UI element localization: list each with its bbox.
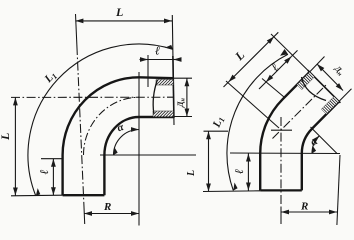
svg-text:ℓ: ℓ — [155, 44, 160, 58]
dimension L (vertical left) — [208, 131, 210, 191]
arrow L1 right bottom end — [233, 183, 237, 191]
l top extension — [41, 158, 63, 160]
bottom extension line — [11, 194, 63, 197]
centerline arc of bend (dash-dot) — [84, 97, 140, 155]
arrow L1 arc bottom end — [36, 188, 41, 196]
radius line from O2 to incline tangent — [311, 127, 338, 154]
top extension of L (axis intersection level) — [204, 130, 229, 132]
l extension (tangent line of top pipe) — [147, 55, 149, 87]
label L vertical — [186, 170, 197, 177]
Dn extension lines — [174, 77, 192, 79]
vertical line through O2 down to R dim — [337, 155, 340, 225]
bottom wall of horizontal pipe — [139, 116, 174, 118]
dimension l (top right, short) — [140, 59, 149, 61]
svg-text:Дн: Дн — [331, 63, 346, 78]
dimension l (bottom-left small) — [52, 159, 54, 196]
hatch band outer (incline) — [297, 72, 315, 90]
top wall of horizontal pipe — [139, 76, 174, 79]
label l inclined — [268, 61, 282, 75]
Dn extensions beyond face — [310, 57, 325, 73]
arrow L1 arc top end — [165, 45, 173, 49]
alpha angle arc (right) — [312, 136, 319, 154]
P-plane extension (for L inclined dim) — [226, 81, 279, 128]
svg-text:L: L — [0, 133, 12, 141]
weld seam arc (incline) — [302, 77, 327, 101]
pipe bottom face — [63, 194, 105, 196]
face-plane extension (up-left from outer corner) — [271, 34, 310, 72]
label l bottom-left — [37, 169, 51, 174]
dimension l (vertical small) — [247, 154, 249, 191]
bottom face of right pipe — [260, 189, 302, 191]
svg-text:R: R — [103, 201, 111, 213]
dimension L (inclined) — [229, 37, 275, 83]
arrow alpha right end — [312, 146, 316, 154]
svg-text:R: R — [300, 201, 308, 213]
alpha angle arc — [114, 130, 140, 156]
centerline below pipe to R dim — [83, 207, 86, 224]
inner wall: vertical pipe right + bend arc — [104, 117, 139, 195]
svg-text:ℓ: ℓ — [232, 169, 246, 174]
label L left — [0, 133, 12, 141]
label l vertical — [232, 169, 246, 174]
dashes of intersection level near P — [271, 129, 292, 131]
hatch band inner (incline) — [321, 97, 339, 115]
bottom pipe inner wall + bend inner arc + inclined inner wall — [302, 101, 339, 190]
dimension Dn (across inclined face) — [317, 64, 343, 91]
right end face line (extends up for l-dim and down for Dn-dim) — [172, 15, 174, 125]
arrow alpha arc top end — [131, 127, 139, 132]
weld seam arc inside pipe — [153, 80, 157, 114]
arrow L1 right top end — [280, 49, 288, 56]
svg-text:α: α — [116, 121, 126, 135]
bottom extension line — [203, 190, 260, 193]
arrow alpha right top end — [312, 136, 319, 143]
label Dn right — [331, 63, 346, 78]
hatch band bottom wall — [153, 111, 173, 117]
L1 developed-length arc (right) — [227, 54, 288, 190]
dimension Dn (right of end face) — [186, 78, 188, 116]
hatch band top wall — [156, 80, 173, 86]
radius/tangent vertical line through O — [138, 72, 140, 226]
vertical centerline of bottom pipe (skewed), also top-L left extension — [76, 14, 77, 46]
label alpha — [116, 121, 126, 135]
dimension l (inclined) — [266, 56, 292, 82]
arrow alpha arc bottom end — [114, 147, 118, 155]
svg-text:Дн: Дн — [176, 98, 187, 108]
inclined axis (dash-dot through P) — [273, 85, 327, 139]
svg-text:L: L — [186, 170, 197, 177]
dimension L (top) — [75, 20, 172, 22]
label Dn — [176, 98, 187, 108]
horizontal line through O — [100, 154, 196, 156]
svg-text:ℓ: ℓ — [37, 169, 51, 174]
L1 developed-length arc — [28, 44, 173, 196]
bottom pipe outer wall + bend outer arc + inclined outer wall — [260, 72, 309, 190]
label alpha right — [309, 135, 321, 149]
outer wall: vertical pipe left + bend arc — [63, 77, 139, 195]
label L1 right — [210, 115, 226, 131]
svg-text:L: L — [232, 48, 248, 64]
svg-text:L1: L1 — [42, 69, 60, 86]
svg-text:L: L — [115, 5, 123, 19]
label L1 — [42, 69, 60, 86]
tangent-plane extension (for l inclined dim) — [262, 79, 284, 98]
tangent line through O2 — [230, 152, 340, 155]
horizontal centerline of right pipe — [11, 96, 174, 98]
dimension R (right bottom) — [281, 211, 337, 213]
vertical centerline of right pipe — [280, 117, 282, 207]
dimension R (bottom) — [84, 213, 139, 215]
inclined end face — [308, 70, 341, 103]
svg-text:L1: L1 — [210, 115, 226, 131]
dimension L (left vertical) — [14, 97, 16, 195]
label L inclined — [232, 48, 248, 64]
